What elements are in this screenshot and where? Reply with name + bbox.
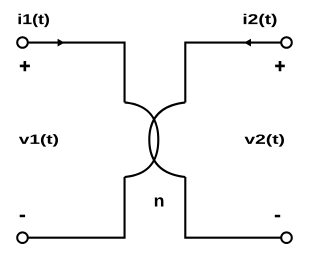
port 1 bottom terminal	[17, 232, 28, 243]
current arrow i1	[58, 39, 65, 47]
label v2(t)	[245, 134, 285, 147]
label v1(t)	[19, 134, 58, 147]
current arrow i2	[244, 39, 251, 47]
wire top-left horizontal + left vertical	[28, 43, 125, 103]
wire bottom-right horizontal + right lower vertical	[185, 177, 281, 238]
wire bottom-left horizontal + left lower vertical	[28, 177, 125, 238]
minus sign port 1	[20, 215, 25, 218]
port 2 top terminal	[281, 37, 292, 48]
minus sign port 2	[275, 215, 280, 218]
port 2 bottom terminal	[281, 232, 292, 243]
label i2(t)	[244, 14, 277, 27]
port 1 top terminal	[17, 37, 28, 48]
label i1(t)	[19, 14, 50, 27]
transformer crossing curve from left side	[125, 102, 159, 177]
turns ratio label n	[155, 197, 164, 206]
wire top-right horizontal + right vertical	[185, 43, 281, 103]
plus sign port 2	[275, 61, 285, 71]
transformer crossing curve from right side	[149, 102, 185, 177]
plus sign port 1	[20, 61, 30, 71]
